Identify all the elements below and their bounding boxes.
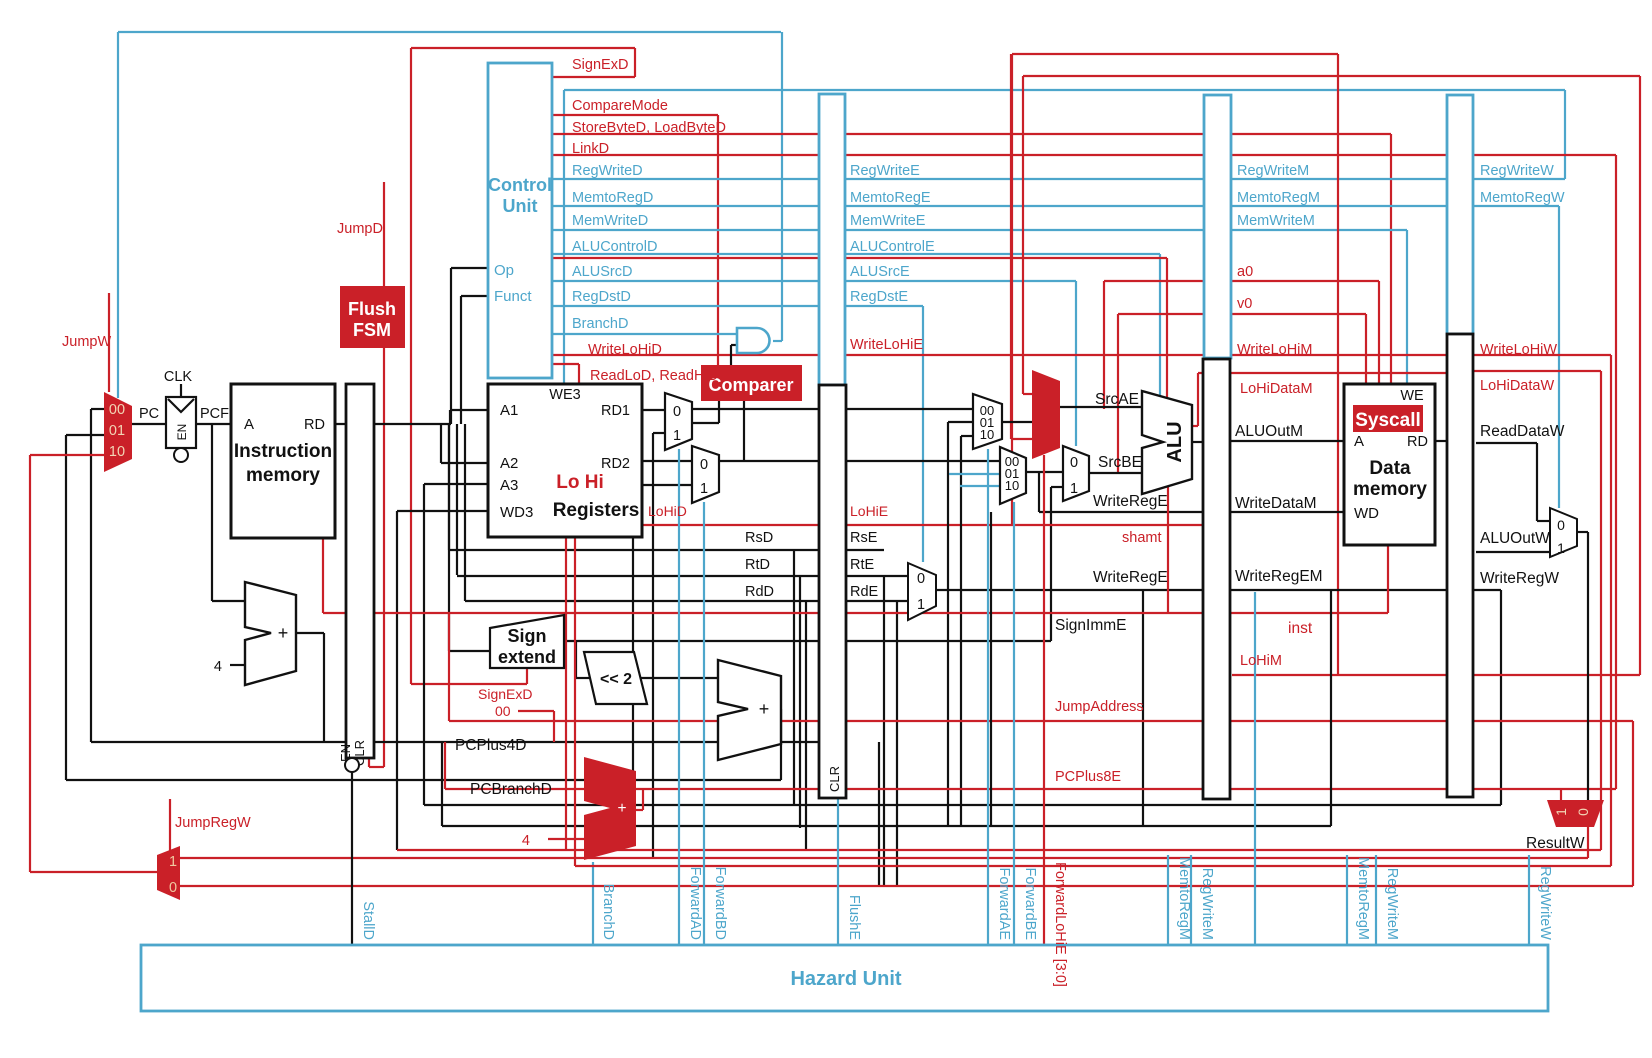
svg-text:RD2: RD2 (601, 456, 630, 472)
register MEM/WB control (blue) (1447, 95, 1473, 334)
svg-text:RtD: RtD (745, 557, 770, 573)
svg-text:WriteRegW: WriteRegW (1480, 570, 1559, 587)
wire: WD3 / ResultW loop (397, 510, 488, 512)
svg-text:Lo Hi: Lo Hi (556, 472, 604, 493)
svg-text:WriteLoHiW: WriteLoHiW (1480, 342, 1557, 358)
control unit box (488, 63, 552, 378)
svg-text:00: 00 (109, 402, 125, 418)
svg-text:MemWriteD: MemWriteD (572, 213, 648, 229)
mux after RD2 (692, 446, 719, 503)
wire: A3 / WriteRegW loop (424, 483, 488, 485)
svg-text:RdE: RdE (850, 584, 879, 600)
wire: JumpAddress return row (180, 885, 1633, 887)
wire: RD1 pass-through row (692, 408, 973, 410)
svg-text:Unit: Unit (503, 196, 538, 216)
svg-text:RtE: RtE (850, 557, 875, 573)
svg-text:A3: A3 (500, 477, 518, 494)
svg-text:0: 0 (673, 404, 681, 420)
svg-text:shamt: shamt (1122, 530, 1162, 546)
svg-text:RegWriteM: RegWriteM (1237, 163, 1309, 179)
svg-text:RD1: RD1 (601, 403, 630, 419)
wire: inst row (322, 538, 324, 613)
register IF/ID (346, 384, 374, 758)
mux JumpRegW (red) (157, 846, 180, 900)
shift left 2 box (584, 652, 647, 704)
svg-text:RegWriteD: RegWriteD (572, 163, 643, 179)
wire: RtD row (456, 424, 458, 575)
wire: forward taps (948, 421, 973, 423)
svg-text:LoHiM: LoHiM (1240, 653, 1282, 669)
svg-text:WriteLoHiD: WriteLoHiD (588, 342, 662, 358)
svg-text:SrcAE: SrcAE (1095, 391, 1139, 408)
svg-text:Comparer: Comparer (708, 375, 793, 395)
mux ForwardB (1000, 447, 1026, 504)
wire: RegWriteW tick (1528, 855, 1530, 945)
wire: comparer inputs (692, 422, 719, 424)
svg-text:A1: A1 (500, 402, 518, 419)
wire: comparer to AND (730, 345, 732, 365)
svg-text:RegWriteW: RegWriteW (1537, 866, 1553, 940)
svg-text:ForwardAD: ForwardAD (687, 867, 703, 940)
svg-text:WriteLoHiM: WriteLoHiM (1237, 342, 1312, 358)
svg-text:1: 1 (700, 481, 708, 497)
svg-text:ReadDataW: ReadDataW (1480, 423, 1565, 440)
svg-text:ALUSrcE: ALUSrcE (850, 264, 910, 280)
svg-text:SignImmE: SignImmE (1055, 617, 1127, 634)
svg-text:10: 10 (980, 427, 994, 442)
comparer box (701, 365, 802, 401)
svg-text:ReadLoD, ReadHiD: ReadLoD, ReadHiD (590, 368, 718, 384)
svg-text:LinkD: LinkD (572, 141, 609, 157)
svg-text:memory: memory (246, 465, 320, 486)
wire: LoHi row D/E (642, 524, 1203, 526)
wire: ALUSrc row (552, 280, 1076, 282)
svg-text:RD: RD (1407, 434, 1428, 450)
svg-text:ALUOutW: ALUOutW (1480, 530, 1550, 547)
wire: LoHiDataM tap (1197, 373, 1199, 426)
register file box (488, 384, 642, 537)
svg-text:01: 01 (109, 423, 125, 439)
svg-text:FSM: FSM (353, 320, 391, 340)
register ID/EX control (blue) (819, 94, 845, 385)
wire: StoreByteD,LoadByteD (552, 133, 1391, 135)
Flush FSM box (340, 286, 405, 348)
svg-text:0: 0 (700, 457, 708, 473)
wire: ForwardBD (703, 502, 705, 945)
svg-text:SignExD: SignExD (478, 686, 532, 702)
svg-text:Syscall: Syscall (1355, 410, 1421, 431)
wire: JumpRegW tick (169, 799, 171, 851)
svg-text:extend: extend (498, 647, 556, 667)
svg-text:Hazard Unit: Hazard Unit (790, 968, 901, 990)
svg-text:10: 10 (1005, 478, 1019, 493)
wire: RegWriteM tick (1190, 855, 1192, 945)
svg-text:LoHiE: LoHiE (850, 503, 888, 519)
svg-text:RegDstD: RegDstD (572, 289, 631, 305)
wire: RD1 row (642, 409, 665, 411)
wire: FlushE (837, 798, 839, 945)
svg-text:CompareMode: CompareMode (572, 98, 668, 114)
svg-text:A: A (1354, 433, 1364, 450)
svg-text:ALUControlE: ALUControlE (850, 239, 935, 255)
svg-text:0: 0 (1575, 808, 1591, 816)
svg-text:EN: EN (175, 424, 189, 441)
svg-text:Flush: Flush (348, 299, 396, 319)
wire: a0 (1103, 281, 1105, 409)
wire: v0 (1117, 314, 1119, 474)
sign extend box (490, 615, 564, 668)
mux PC source (104, 392, 132, 472)
wire: RsD row (448, 424, 450, 550)
wire: BranchD row (552, 333, 736, 335)
svg-text:MemtoRegE: MemtoRegE (850, 190, 931, 206)
svg-text:PC: PC (139, 406, 159, 422)
svg-text:SignExD: SignExD (572, 57, 628, 73)
wire: WriteLoHi row (552, 354, 1611, 356)
svg-text:WriteDataM: WriteDataM (1235, 495, 1317, 512)
svg-text:SrcBE: SrcBE (1098, 454, 1142, 471)
svg-text:LoHiD: LoHiD (648, 503, 687, 519)
IF/ID EN bubble (345, 758, 359, 772)
wire: shamt (1167, 486, 1169, 613)
svg-text:memory: memory (1353, 479, 1427, 500)
wire: ForwardBE (1013, 502, 1015, 945)
svg-text:0: 0 (1557, 517, 1565, 533)
wire: LoHiDataW row (1474, 370, 1601, 372)
wire: ReadLoD,ReadHiD (551, 363, 579, 365)
svg-text:WD3: WD3 (500, 504, 533, 521)
hazard unit box (141, 945, 1548, 1011)
svg-text:RegDstE: RegDstE (850, 289, 908, 305)
svg-text:Data: Data (1369, 458, 1411, 479)
svg-text:+: + (759, 699, 770, 719)
wire: MemtoRegM tick (1167, 855, 1169, 945)
svg-text:ALUOutM: ALUOutM (1235, 423, 1303, 440)
wire: PC / PCF / instruction row (132, 423, 166, 425)
mux WriteReg (908, 563, 936, 620)
ALU (1142, 391, 1192, 494)
wire: taps to bottom rows (883, 576, 885, 886)
wire: ReadDataW (1476, 442, 1537, 444)
svg-text:WriteRegE: WriteRegE (1093, 493, 1168, 510)
svg-text:RD: RD (304, 417, 325, 433)
wire: MemtoRegM tick 2 (1346, 855, 1348, 945)
svg-text:MemWriteE: MemWriteE (850, 213, 926, 229)
wire: result mux out (1577, 531, 1588, 533)
svg-text:0: 0 (917, 571, 925, 587)
wire: LinkD (552, 154, 1616, 156)
svg-text:MemtoRegW: MemtoRegW (1480, 190, 1565, 206)
data memory box (1344, 384, 1435, 545)
svg-text:00: 00 (495, 703, 511, 719)
svg-text:JumpW: JumpW (62, 334, 111, 350)
wire: LoHi bypass top red (1012, 53, 1338, 55)
wire: ForwardAD (678, 449, 680, 945)
svg-text:WriteLoHiE: WriteLoHiE (850, 337, 923, 353)
svg-text:PCF: PCF (200, 406, 229, 422)
wire: LoHiDataW return row (575, 865, 1611, 867)
svg-text:+: + (278, 623, 289, 643)
adder PC+8 (red) (584, 757, 636, 860)
wire: ForwardAE (987, 449, 989, 945)
svg-text:RegWriteW: RegWriteW (1480, 163, 1554, 179)
svg-text:JumpAddress: JumpAddress (1055, 699, 1144, 715)
wire: ForwardA out (1002, 421, 1032, 423)
wire: ForwardLoHiE (1043, 455, 1045, 945)
wire: WriteRegW loop top (1474, 589, 1501, 591)
wire: StallD (351, 771, 353, 945)
wire: bottom black row 828 (442, 825, 1331, 827)
svg-text:StoreByteD, LoadByteD: StoreByteD, LoadByteD (572, 120, 726, 136)
wire: MemWrite row (552, 229, 1407, 231)
wire: PCBranchD (780, 709, 782, 780)
svg-text:PCBranchD: PCBranchD (470, 781, 552, 798)
instruction memory box (231, 384, 335, 538)
wire: M2 vertical (1254, 592, 1256, 945)
svg-text:WE: WE (1400, 388, 1424, 404)
wire: RegWriteW feedback to WE3 (blue) (564, 89, 1565, 91)
svg-text:MemtoRegM: MemtoRegM (1355, 857, 1371, 940)
wire: Funct tap (461, 295, 488, 297)
svg-text:JumpRegW: JumpRegW (175, 815, 251, 831)
svg-text:10: 10 (109, 444, 125, 460)
wire: 00 elbow (518, 710, 554, 712)
svg-text:1: 1 (1553, 808, 1569, 816)
wire: PCPlus8E row (445, 788, 1616, 790)
svg-text:JumpD: JumpD (337, 221, 383, 237)
wire: PCPlus4 loop (296, 632, 324, 634)
svg-text:BranchD: BranchD (600, 884, 616, 940)
svg-text:RsD: RsD (745, 530, 773, 546)
mux ForwardA (973, 394, 1002, 449)
svg-text:Registers: Registers (553, 500, 640, 521)
svg-text:MemWriteM: MemWriteM (1237, 213, 1315, 229)
svg-text:A: A (244, 416, 254, 433)
wire: ALUControl row blue (552, 253, 1160, 255)
svg-text:Op: Op (494, 262, 514, 279)
svg-text:<< 2: << 2 (600, 671, 632, 688)
svg-text:RsE: RsE (850, 530, 878, 546)
wire: WriteRegE row (936, 589, 1447, 591)
svg-text:A2: A2 (500, 455, 518, 472)
svg-text:1: 1 (1070, 481, 1078, 497)
wire: jump to PC mux (30, 871, 157, 873)
svg-text:Control: Control (488, 175, 552, 195)
adder PC+4 (245, 582, 296, 685)
wire: RegWrite row (552, 178, 1565, 180)
svg-text:Sign: Sign (508, 626, 547, 646)
svg-text:ForwardBD: ForwardBD (712, 867, 728, 940)
mux after RD1 (665, 393, 692, 450)
syscall box (1353, 405, 1423, 432)
svg-text:+: + (617, 800, 626, 817)
svg-text:ALUControlD: ALUControlD (572, 239, 657, 255)
mux ResultW (red) (1547, 800, 1604, 827)
svg-text:MemtoRegM: MemtoRegM (1176, 857, 1192, 940)
wire: JumpW (108, 293, 110, 392)
wire: ResultW row (397, 849, 1601, 851)
mux LoHi forward (red) (1032, 370, 1060, 459)
svg-text:0: 0 (169, 880, 177, 896)
svg-text:inst: inst (1288, 620, 1313, 637)
svg-text:RegWriteE: RegWriteE (850, 163, 920, 179)
svg-text:1: 1 (169, 854, 177, 870)
svg-text:CLR: CLR (827, 766, 842, 792)
svg-text:v0: v0 (1237, 296, 1252, 312)
wire: ALUOut row (1192, 441, 1203, 443)
svg-text:1: 1 (673, 428, 681, 444)
svg-text:StallD: StallD (360, 901, 376, 940)
svg-text:ForwardAE: ForwardAE (996, 867, 1012, 940)
register ID/EX data (819, 385, 846, 798)
wire: RegWriteM tick 2 (1375, 855, 1377, 945)
wire: jr row (180, 857, 1588, 859)
svg-text:ForwardBE: ForwardBE (1022, 867, 1038, 940)
PC register (166, 397, 196, 448)
svg-text:MemtoRegM: MemtoRegM (1237, 190, 1320, 206)
wire: mux1 1-input (653, 432, 665, 434)
svg-text:WE3: WE3 (549, 387, 580, 403)
svg-text:LoHiDataM: LoHiDataM (1240, 381, 1313, 397)
wire: SignExD control (552, 76, 635, 78)
wire: LoHiM row (1232, 674, 1640, 676)
wire: SrcBE row (1026, 471, 1063, 473)
svg-text:RegWriteM: RegWriteM (1384, 868, 1400, 940)
wire: JumpAddress row (449, 720, 1633, 722)
svg-text:ForwardLoHiE [3:0]: ForwardLoHiE [3:0] (1052, 862, 1068, 987)
svg-text:WD: WD (1354, 505, 1379, 522)
svg-text:PCPlus4D: PCPlus4D (455, 737, 527, 754)
wire: AND out (773, 340, 782, 342)
wire: RegDst row (552, 305, 923, 307)
adder branch (718, 660, 781, 760)
wire: sign extend input (448, 424, 450, 651)
svg-text:ALU: ALU (1164, 421, 1186, 462)
wire: WriteDataE tap (1038, 472, 1040, 512)
wire: top red loop 2 (1023, 75, 1640, 77)
wire: RD2 row / pass-through (642, 460, 1000, 462)
wire: RdD row (464, 424, 466, 601)
svg-text:Instruction: Instruction (234, 441, 332, 462)
svg-text:RegWriteM: RegWriteM (1199, 868, 1215, 940)
svg-text:a0: a0 (1237, 264, 1253, 280)
svg-text:4: 4 (214, 659, 222, 675)
wire: SignImm row (575, 641, 577, 678)
register MEM/WB data (1447, 334, 1473, 797)
svg-text:LoHiDataW: LoHiDataW (1480, 378, 1554, 394)
svg-text:ALUSrcD: ALUSrcD (572, 264, 632, 280)
wire: mux2 1-input (633, 484, 692, 486)
wire: Op tap (451, 267, 488, 269)
wire: SrcAE row (1060, 406, 1142, 408)
svg-text:0: 0 (1070, 455, 1078, 471)
svg-text:FlushE: FlushE (846, 895, 862, 940)
wire: CompareMode (552, 114, 718, 116)
AND gate (737, 328, 770, 353)
svg-text:WriteRegEM: WriteRegEM (1235, 568, 1323, 585)
svg-text:RdD: RdD (745, 584, 774, 600)
wire: ALUOutW (1476, 551, 1550, 553)
wire: ALUControl row red (552, 257, 1167, 259)
wire: JumpD (383, 182, 385, 767)
svg-text:CLK: CLK (164, 369, 193, 385)
svg-text:1: 1 (917, 597, 925, 613)
svg-text:BranchD: BranchD (572, 316, 628, 332)
mux ReadData/ALUOut (1550, 508, 1577, 557)
svg-text:Funct: Funct (494, 288, 532, 305)
register EX/MEM data (1203, 359, 1230, 799)
register EX/MEM control (blue) (1204, 95, 1231, 358)
wire: red adder inputs (548, 838, 584, 840)
svg-text:ResultW: ResultW (1526, 835, 1585, 852)
mux SrcB (1063, 446, 1089, 501)
svg-text:WriteRegE: WriteRegE (1093, 569, 1168, 586)
wire: A2 tap (440, 424, 442, 463)
svg-text:PCPlus8E: PCPlus8E (1055, 769, 1121, 785)
svg-text:MemtoRegD: MemtoRegD (572, 190, 653, 206)
wire: MemtoReg row (552, 205, 1559, 207)
svg-text:4: 4 (522, 833, 530, 849)
wire: AND-gate output loop to PC mux (blue) (118, 31, 781, 33)
svg-text:1: 1 (1557, 540, 1565, 556)
